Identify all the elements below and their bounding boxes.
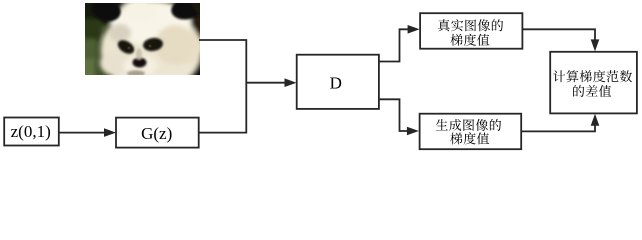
svg-text:D: D xyxy=(330,73,342,92)
svg-text:G(z): G(z) xyxy=(141,124,172,143)
svg-text:z(0,1): z(0,1) xyxy=(11,122,51,141)
